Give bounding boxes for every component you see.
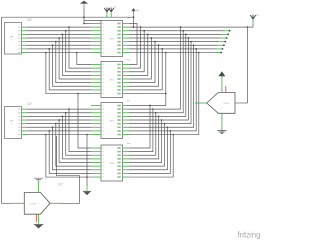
U1 right pin 17 leg (123, 26, 130, 28)
junction chain U2 GND (77, 93, 79, 95)
IC U1 body (101, 21, 123, 57)
junction weave-A tap 1 (68, 26, 70, 28)
wire U1 right row 5 (129, 37, 221, 39)
wire VCC bus row2 (129, 26, 253, 28)
wire branch to U4 row 4 (62, 116, 91, 159)
ratsnest red U6 bottom (35, 214, 37, 222)
wire branch to U2 row 6 (56, 42, 91, 83)
U1 left pin 6 leg (91, 41, 101, 43)
wire down to U2 right row 2 (129, 27, 141, 68)
wire down to U4 right row 9 (129, 135, 173, 178)
U4 left pin 3 leg (91, 154, 101, 156)
U2 right pin 10 leg (123, 93, 130, 95)
U3 left pin 2 leg (91, 108, 101, 110)
U3 left pin 7 leg (91, 126, 101, 128)
wire U1 right row 6 (129, 41, 219, 43)
wire J1 pin7 to U1 (27, 48, 92, 50)
wire down right edge to U5 (247, 27, 249, 103)
U4 right pin 13 leg (123, 165, 130, 167)
U2 right pin 16 leg (123, 71, 130, 73)
U4 left pin 6 leg (91, 165, 101, 167)
U4 right pin 11 leg (123, 172, 130, 174)
U6 bottom pin leg (37, 214, 39, 224)
wire 5V down to VCC bus (133, 16, 135, 27)
wire down to U4 right row 5 (129, 120, 162, 163)
J1 pin 1 leg (22, 26, 27, 28)
wire x84 branch to U1 top (84, 20, 101, 22)
U1 right pin 10 leg (123, 52, 130, 54)
green wire end row 4 (222, 33, 228, 35)
U1 right pin 14 leg (123, 37, 130, 39)
U4 right pin 12 leg (123, 169, 130, 171)
junction B1-8 on U1 row (161, 48, 163, 50)
wire into U1 row1 leg (84, 23, 91, 25)
svg-text:U?: U? (28, 18, 32, 22)
green wire end row 9 (215, 52, 221, 54)
wire down to U2 right row 9 (129, 53, 166, 94)
U4 left pin 2 leg (91, 151, 101, 153)
wire U1 row1 corner down to U2 row1 (129, 24, 137, 65)
U5 bottom pin leg (221, 113, 223, 130)
junction x84 at U1 row1 (83, 23, 85, 25)
IC U4 body (101, 145, 123, 181)
svg-text:RTCSP: RTCSP (224, 103, 231, 105)
wire U3 right row 2 up (129, 27, 181, 109)
U1 left pin 3 leg (91, 30, 101, 32)
J1 pin 2 leg (22, 30, 27, 32)
U2 right pin 18 leg (123, 64, 130, 66)
svg-text:5V: 5V (114, 7, 117, 9)
junction B1-6 on U1 row (154, 41, 156, 43)
U2 right pin 14 leg (123, 78, 130, 80)
wire U3 right row 4 up (129, 34, 186, 116)
junction x84 on VCC rail (83, 16, 85, 18)
U1 right pin 11 leg (123, 48, 130, 50)
wire branch to U2 row 8 (49, 49, 91, 90)
svg-text:5V: 5V (136, 9, 139, 12)
wire down to U2 right row 8 (129, 49, 162, 90)
junction B3-4 on U3 row (158, 116, 160, 118)
U4 right pin 10 leg (123, 176, 130, 178)
svg-text:G: G (45, 179, 47, 181)
U5 right pin leg (235, 102, 244, 104)
junction W6 on top line (190, 41, 192, 43)
wire x84 down to U1 row1 (83, 8, 85, 24)
wire U3 right row 3 up (129, 31, 183, 113)
wire endpoint row 7 (223, 44, 225, 46)
ground symbol below U4 (83, 190, 91, 192)
wire branch to U2 row 9 (46, 53, 91, 94)
wire J1 pin2 to U1 (27, 30, 92, 32)
wire J2 pin6 to U3 (27, 126, 92, 128)
wire branch to U4 row 6 (56, 124, 91, 166)
svg-text:fritzing: fritzing (238, 230, 261, 239)
wire branch to U4 row 8 (49, 131, 91, 174)
wire down to U4 right row 6 (129, 124, 165, 166)
U4 left pin 9 leg (91, 176, 101, 178)
U3 right pin 11 leg (123, 130, 130, 132)
U3 right pin 18 leg (123, 105, 130, 107)
wire down to U2 right row 6 (129, 42, 155, 83)
U3 left pin 6 leg (91, 123, 101, 125)
wire branch to U2 row 2 (69, 27, 91, 68)
J2 pin 8 leg (22, 134, 27, 136)
U3 right pin 12 leg (123, 126, 130, 128)
U3 left pin 8 leg (91, 130, 101, 132)
svg-text:RTCSP: RTCSP (31, 203, 38, 205)
U3 right pin 14 leg (123, 119, 130, 121)
power symbol VCC above U5 (219, 71, 226, 76)
junction B1-3 on U1 row (143, 30, 145, 32)
wire endpoint row 8 (222, 48, 224, 50)
wire down to U2 right row 5 (129, 38, 151, 79)
U1 left pin 4 leg (91, 33, 101, 35)
U2 left pin 5 leg (91, 78, 101, 80)
junction W4 on top line (185, 34, 187, 36)
connector header J2 body (5, 107, 22, 139)
J2 pin 1 leg (22, 108, 27, 110)
junction B3-6 on U3 row (164, 123, 166, 125)
junction weave-B tap 2 (65, 112, 67, 114)
wire down to U4 right row 1 (129, 106, 150, 149)
J2 pin 7 leg (22, 130, 27, 132)
wire U1 right row 9 (129, 52, 215, 54)
junction weave-B tap 3 (62, 116, 64, 118)
junction weave-B tap 4 (58, 119, 60, 121)
U1 left pin 5 leg (91, 37, 101, 39)
wire branch to U2 row 3 (66, 31, 91, 72)
green stem 5V mid (133, 11, 135, 16)
ground symbol below U6 (34, 223, 43, 225)
U1 left pin 7 leg (91, 44, 101, 46)
U6 right pin leg (50, 202, 60, 204)
U4 left pin 8 leg (91, 172, 101, 174)
junction B1-2 on U1 row (140, 26, 142, 28)
wire J1 pin5 to U1 (27, 41, 92, 43)
wire J2 pin7 to U3 (27, 130, 92, 132)
junction B3-8 on U3 row (169, 130, 171, 132)
wire chain U2 row9 to U3 row1 (129, 94, 166, 106)
power symbol VCC arrow top-right (250, 15, 255, 20)
green wire end row 8 (217, 48, 223, 50)
wire branch to U4 row 9 (46, 135, 91, 178)
IC U3 body (101, 103, 123, 139)
junction weave-A tap 3 (62, 34, 64, 36)
power symbol 5V arrow mid (x133.5) (131, 8, 135, 11)
junction GND tap U3 row9 (86, 134, 88, 136)
U2 left pin 3 leg (91, 71, 101, 73)
junction W2 on top line (180, 26, 182, 28)
green stem VCC1 (106, 12, 108, 17)
junction B3-7 on U3 row (167, 126, 169, 128)
wire down to U2 right row 3 (129, 31, 144, 72)
wire down to U4 right row 3 (129, 113, 156, 155)
ratsnest red U5 top (225, 86, 227, 92)
J2 pin 3 leg (22, 115, 27, 117)
junction B3-5 on U3 row (161, 119, 163, 121)
J1 pin 6 leg (22, 44, 27, 46)
svg-text:5V: 5V (256, 15, 259, 17)
U5 top pin leg (221, 76, 223, 93)
wire down to U2 right row 4 (129, 34, 148, 75)
U2 right pin 13 leg (123, 82, 130, 84)
green wire end row 5 (221, 37, 227, 39)
U2 left pin 6 leg (91, 82, 101, 84)
junction weave-A tap 6 (52, 44, 54, 46)
wire endpoint row 9 (220, 52, 222, 54)
junction bus to U5 branch (247, 26, 249, 28)
U3 right pin 13 leg (123, 123, 130, 125)
wire U3 right row 7 up (129, 45, 194, 127)
speaker U6 body (24, 193, 50, 215)
U4 right pin 16 leg (123, 154, 130, 156)
wire U5 right pin to vertical (244, 102, 248, 104)
wire branch to U2 row 4 (62, 34, 91, 75)
wire endpoint row 6 (224, 41, 226, 43)
connector header J1 body (5, 23, 22, 55)
U4 right pin 17 leg (123, 151, 130, 153)
green stem VCC2 (110, 12, 112, 17)
junction 5V on bus (133, 26, 135, 28)
U3 left pin 1 leg (91, 105, 101, 107)
J1 pin 8 leg (22, 52, 27, 54)
wire U1 right row 7 (129, 44, 218, 46)
junction weave-A tap 8 (45, 52, 47, 54)
U3 right pin 10 leg (123, 134, 130, 136)
junction weave-B tap 7 (48, 130, 50, 132)
wire J2 pin1 to U3 (27, 108, 92, 110)
svg-text:U?: U? (28, 102, 32, 106)
green stem top-right (252, 19, 254, 24)
junction B3-9 on U3 row (172, 134, 174, 136)
U3 left pin 3 leg (91, 112, 101, 114)
U1 right pin 13 leg (123, 41, 130, 43)
junction chain U1 GND (76, 52, 78, 54)
J2 pin 4 leg (22, 119, 27, 121)
wire down to U4 right row 8 (129, 131, 170, 174)
wire down to U4 right row 7 (129, 127, 167, 170)
junction W8 on top line (195, 48, 197, 50)
svg-text:Tser: Tser (127, 143, 131, 145)
wire J2 pin3 to U3 (27, 115, 92, 117)
U4 left pin 5 leg (91, 162, 101, 164)
junction weave-B tap 8 (45, 134, 47, 136)
wire branch to U4 row 3 (66, 113, 91, 155)
wire GND drop (86, 135, 88, 187)
wire J1 pin3 to U1 (27, 33, 92, 35)
wire J2 pin4 to U3 (27, 119, 92, 121)
wire branch to U4 row 2 (69, 109, 91, 152)
junction W9 on top line (198, 52, 200, 54)
U3 right pin 15 leg (123, 115, 130, 117)
power symbol VCC arrow 1 (104, 8, 109, 13)
power symbol VCC arrow 2 (109, 8, 114, 13)
junction weave-B tap 1 (68, 108, 70, 110)
buzzer U5 body (207, 93, 235, 114)
U6 top pin leg (37, 181, 39, 193)
wire J2 pin5 to U3 (27, 123, 92, 125)
U4 left pin 7 leg (91, 169, 101, 171)
junction B3-3 on U3 row (155, 112, 157, 114)
U2 right pin 17 leg (123, 67, 130, 69)
wire U3 right row 6 up (129, 42, 191, 124)
junction B1-7 on U1 row (158, 44, 160, 46)
power symbol VCC arrow far-left (x84) (80, 1, 88, 4)
U2 right pin 15 leg (123, 74, 130, 76)
junction weave-B tap 5 (55, 123, 57, 125)
U4 right pin 15 leg (123, 158, 130, 160)
wire U6 right pin loop up (57, 136, 80, 203)
wire branch to U4 row 5 (59, 120, 91, 163)
junction W3 on top line (182, 30, 184, 32)
J2 pin 6 leg (22, 126, 27, 128)
U2 right pin 12 leg (123, 85, 130, 87)
wire J2 pin8 to U3 (27, 134, 92, 136)
junction weave-A tap 7 (48, 48, 50, 50)
U1 right pin 15 leg (123, 33, 130, 35)
wire U1 right row 3 (129, 30, 224, 32)
J1 pin 3 leg (22, 33, 27, 35)
wire chain U2 to U4 row1 (78, 94, 91, 148)
U1 right pin 18 leg (123, 23, 130, 25)
wire J1 pin1 to U1 (27, 26, 92, 28)
ground symbol below U5 (217, 131, 226, 134)
J1 pin 7 leg (22, 48, 27, 50)
wire endpoint row 3 (229, 30, 231, 32)
junction B3-1 on U3 row (149, 105, 151, 107)
junction B1-9 on U1 row (165, 52, 167, 54)
U1 left pin 8 leg (91, 48, 101, 50)
J2 pin 2 leg (22, 112, 27, 114)
junction weave-B tap 6 (52, 126, 54, 128)
U2 left pin 9 leg (91, 93, 101, 95)
U1 right pin 16 leg (123, 30, 130, 32)
wire endpoint row 4 (227, 33, 229, 35)
U3 right pin 17 leg (123, 108, 130, 110)
wire branch to U4 row 7 (53, 127, 92, 170)
wire U3 right row 9 up (129, 53, 199, 135)
J1 pin 5 leg (22, 41, 27, 43)
U2 left pin 1 leg (91, 64, 101, 66)
wire U3 right row 8 up (129, 49, 196, 131)
U4 right pin 14 leg (123, 162, 130, 164)
junction GND tap U4 row9 (86, 176, 88, 178)
junction chain U2 row9 (165, 93, 167, 95)
wire VCC rail + left edge loop to U6 (2, 17, 134, 203)
U2 left pin 7 leg (91, 85, 101, 87)
svg-text:Tser: Tser (127, 18, 131, 20)
J2 pin 5 leg (22, 123, 27, 125)
U2 left pin 8 leg (91, 89, 101, 91)
wire endpoint row 5 (226, 37, 228, 39)
wire U1 right row 8 (129, 48, 217, 50)
U2 left pin 2 leg (91, 67, 101, 69)
wire J1 pin4 to U1 (27, 37, 92, 39)
U4 right pin 18 leg (123, 147, 130, 149)
U1 left pin 9 leg (91, 52, 101, 54)
wire down to U2 right row 7 (129, 45, 159, 86)
U6 left pin leg (13, 202, 25, 204)
U1 left pin 1 leg (91, 23, 101, 25)
U5 left pin leg (195, 102, 207, 104)
svg-text:Tser: Tser (127, 100, 131, 102)
green wire end row 7 (218, 44, 224, 46)
junction weave-A tap 4 (58, 37, 60, 39)
junction W7 on top line (193, 44, 195, 46)
wire J2 pin2 to U3 (27, 112, 92, 114)
wire chain U1 to U2 row1 (77, 53, 91, 65)
wire branch to U2 row 5 (59, 38, 91, 79)
wire down to U4 right row 2 (129, 109, 153, 152)
wire J1 pin6 to U1 (27, 44, 92, 46)
U3 left pin 9 leg (91, 134, 101, 136)
svg-text:Tser: Tser (127, 59, 131, 61)
wire down to U4 right row 4 (129, 116, 159, 159)
U4 left pin 4 leg (91, 158, 101, 160)
wire branch to U2 row 7 (53, 45, 92, 86)
junction B1-4 on U1 row (147, 34, 149, 36)
U1 right pin 12 leg (123, 44, 130, 46)
green stem x84 (83, 4, 85, 8)
U2 left pin 4 leg (91, 74, 101, 76)
green wire end row 6 (219, 41, 225, 43)
wire J1 pin8 to U1 (27, 52, 92, 54)
U1 left pin 2 leg (91, 26, 101, 28)
junction B3-2 on U3 row (152, 108, 154, 110)
U2 right pin 11 leg (123, 89, 130, 91)
junction 5V on rail (133, 16, 135, 18)
U4 left pin 1 leg (91, 147, 101, 149)
junction weave-A tap 5 (55, 41, 57, 43)
wire U1 right row 4 (129, 33, 222, 35)
junction weave-A tap 2 (65, 30, 67, 32)
wire VCC top-right corner (252, 24, 254, 27)
IC U2 body (101, 62, 123, 98)
U3 left pin 4 leg (91, 115, 101, 117)
green wire end row 3 (224, 30, 230, 32)
ground symbol above U6 (34, 178, 43, 181)
J1 pin 4 leg (22, 37, 27, 39)
U3 right pin 16 leg (123, 112, 130, 114)
U3 left pin 5 leg (91, 119, 101, 121)
svg-text:U?: U? (59, 183, 63, 187)
junction W5 on top line (188, 37, 190, 39)
junction B1-5 on U1 row (151, 37, 153, 39)
wire U3 right row 5 up (129, 38, 188, 120)
